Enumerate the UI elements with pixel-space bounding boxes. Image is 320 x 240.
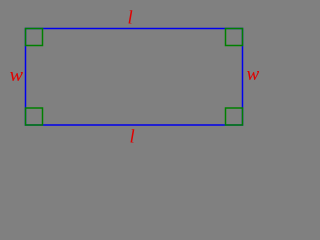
right-angle marker top-left [26,29,43,46]
right-angle marker top-right [226,29,243,46]
right-angle marker bottom-right [226,108,243,125]
right-angle marker bottom-left [26,108,43,125]
rectangle (blue outline) [26,29,243,126]
svg-text:w: w [247,64,260,85]
svg-text:l: l [128,8,133,29]
svg-text:w: w [10,65,24,86]
svg-text:l: l [130,127,135,148]
